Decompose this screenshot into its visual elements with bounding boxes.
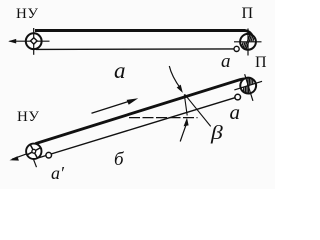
pulley НУ (left, top diagram) <box>26 33 42 49</box>
pulley П centreline vertical <box>247 29 249 56</box>
label β <box>211 122 223 145</box>
wire: thin bottom belt run <box>36 48 234 51</box>
left pulley perpendicular tick below <box>34 159 37 167</box>
arrow: motion direction above belt <box>92 101 131 113</box>
label a (top diagram) <box>114 58 126 84</box>
leader line to beta label <box>185 94 211 126</box>
arrow: up arrowhead at dashed line <box>184 118 189 127</box>
vertical annotation line from belt down to dashed line <box>184 95 187 116</box>
curved tail of up arrow <box>180 125 186 142</box>
label a (below thin run, bottom diagram) <box>230 100 241 125</box>
hub <box>32 149 36 153</box>
pulley П (right, top diagram) circle <box>240 34 256 50</box>
node a': small circle right of left pulley <box>46 152 52 158</box>
wire: thick inclined belt run <box>36 79 255 144</box>
label a (above lower belt) <box>221 51 231 73</box>
pulley left centreline vertical <box>33 28 35 55</box>
pulley П (right, bottom diagram) rotated hatched <box>231 70 267 105</box>
pulley hub diamond <box>31 38 38 44</box>
wire: thick top belt run <box>35 31 253 38</box>
node: small circle at right pulley (bottom diagram) <box>235 94 241 100</box>
label П (bottom diagram) <box>255 54 267 72</box>
spokes <box>27 145 40 158</box>
wire: thin inclined bottom run <box>36 98 235 159</box>
label б <box>114 149 124 171</box>
label НУ (bottom) <box>17 109 39 126</box>
node a: small circle at end of thin run (top diagram) <box>234 46 239 51</box>
label a' <box>51 163 64 184</box>
label НУ (top) <box>16 6 38 23</box>
arrow: left direction arrow <box>8 39 16 44</box>
pulley left centreline horizontal <box>10 40 50 42</box>
arrow: left-down direction arrow <box>10 156 19 160</box>
pulley П centreline horizontal <box>234 41 262 43</box>
left pulley НУ axis line with arrow <box>12 148 42 159</box>
dashed horizontal reference line <box>129 117 198 119</box>
pulley НУ (left, bottom diagram) spoked wheel <box>26 144 41 159</box>
label П (top) <box>242 5 254 23</box>
leader arc onto belt (curved arrow) <box>169 66 181 89</box>
pulley П hatch <box>242 34 255 49</box>
